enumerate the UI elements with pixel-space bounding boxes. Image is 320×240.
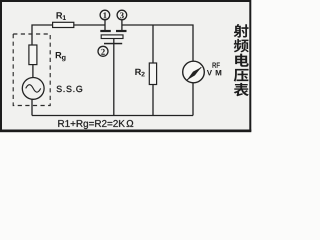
wire: meter to bottom rail [192, 83, 194, 116]
label R2 [135, 69, 144, 77]
label S.S.G [57, 86, 83, 92]
label Chinese char 表 [234, 83, 249, 96]
MOS device U1: substrate bar [104, 43, 122, 45]
label Chinese char 电 [235, 54, 249, 67]
generator dashed enclosure [13, 34, 50, 106]
meter M1 RF voltmeter [183, 61, 205, 83]
label Chinese char 压 [234, 69, 249, 82]
resistor R2 [149, 63, 156, 85]
AC source G1 [22, 78, 44, 100]
label RF [213, 63, 220, 68]
wire: source to bottom rail [31, 99, 33, 115]
MOS device U1: body [101, 35, 123, 39]
wire: top rail from R1 to terminal 1 [74, 24, 105, 26]
terminal 1 [100, 10, 110, 20]
label M [216, 70, 222, 75]
label Chinese char 射 [234, 24, 249, 37]
MOS device U1: right plate [116, 30, 127, 32]
wire: Rg to source [32, 65, 34, 78]
wire: stub terminal 3 to right gate plate [121, 20, 123, 31]
label equation [58, 120, 133, 129]
label V [207, 70, 212, 75]
label R1 [57, 12, 66, 20]
terminal 2 [98, 46, 108, 56]
wire: device bottom lead to bottom rail [113, 39, 115, 116]
resistor Rg [29, 45, 37, 65]
wire: R2 branch lower [152, 85, 154, 116]
terminal 3 [117, 10, 127, 20]
label Rg [56, 52, 66, 61]
wire: stub terminal 1 to left gate plate [104, 20, 106, 31]
label Chinese char 频 [234, 39, 249, 53]
MOS device U1: left plate [100, 30, 111, 32]
wire: top rail left segment with corner [32, 25, 53, 45]
wire: bottom rail [32, 115, 193, 117]
wire: top rail right segment with corner down to meter [122, 25, 193, 61]
wire: R2 branch upper [152, 25, 154, 63]
border frame [0, 1, 251, 132]
resistor R1 [53, 22, 74, 27]
